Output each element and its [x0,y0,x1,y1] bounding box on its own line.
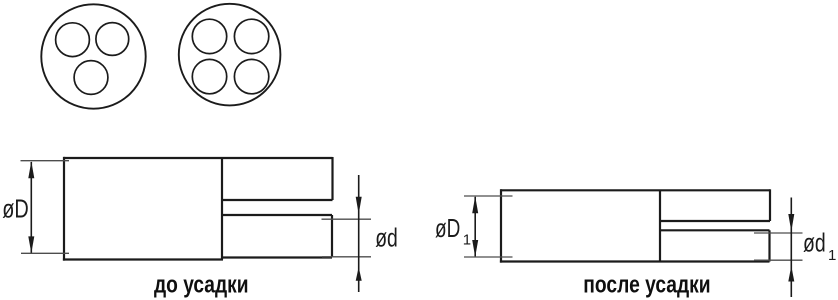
svg-text:1: 1 [463,231,471,248]
svg-text:ød: ød [803,227,826,257]
svg-text:после усадки: после усадки [583,271,710,298]
svg-text:øD: øD [435,213,460,243]
svg-text:1: 1 [828,247,836,264]
svg-text:øD: øD [2,193,29,223]
svg-text:ød: ød [375,222,398,252]
svg-text:до усадки: до усадки [154,272,249,299]
